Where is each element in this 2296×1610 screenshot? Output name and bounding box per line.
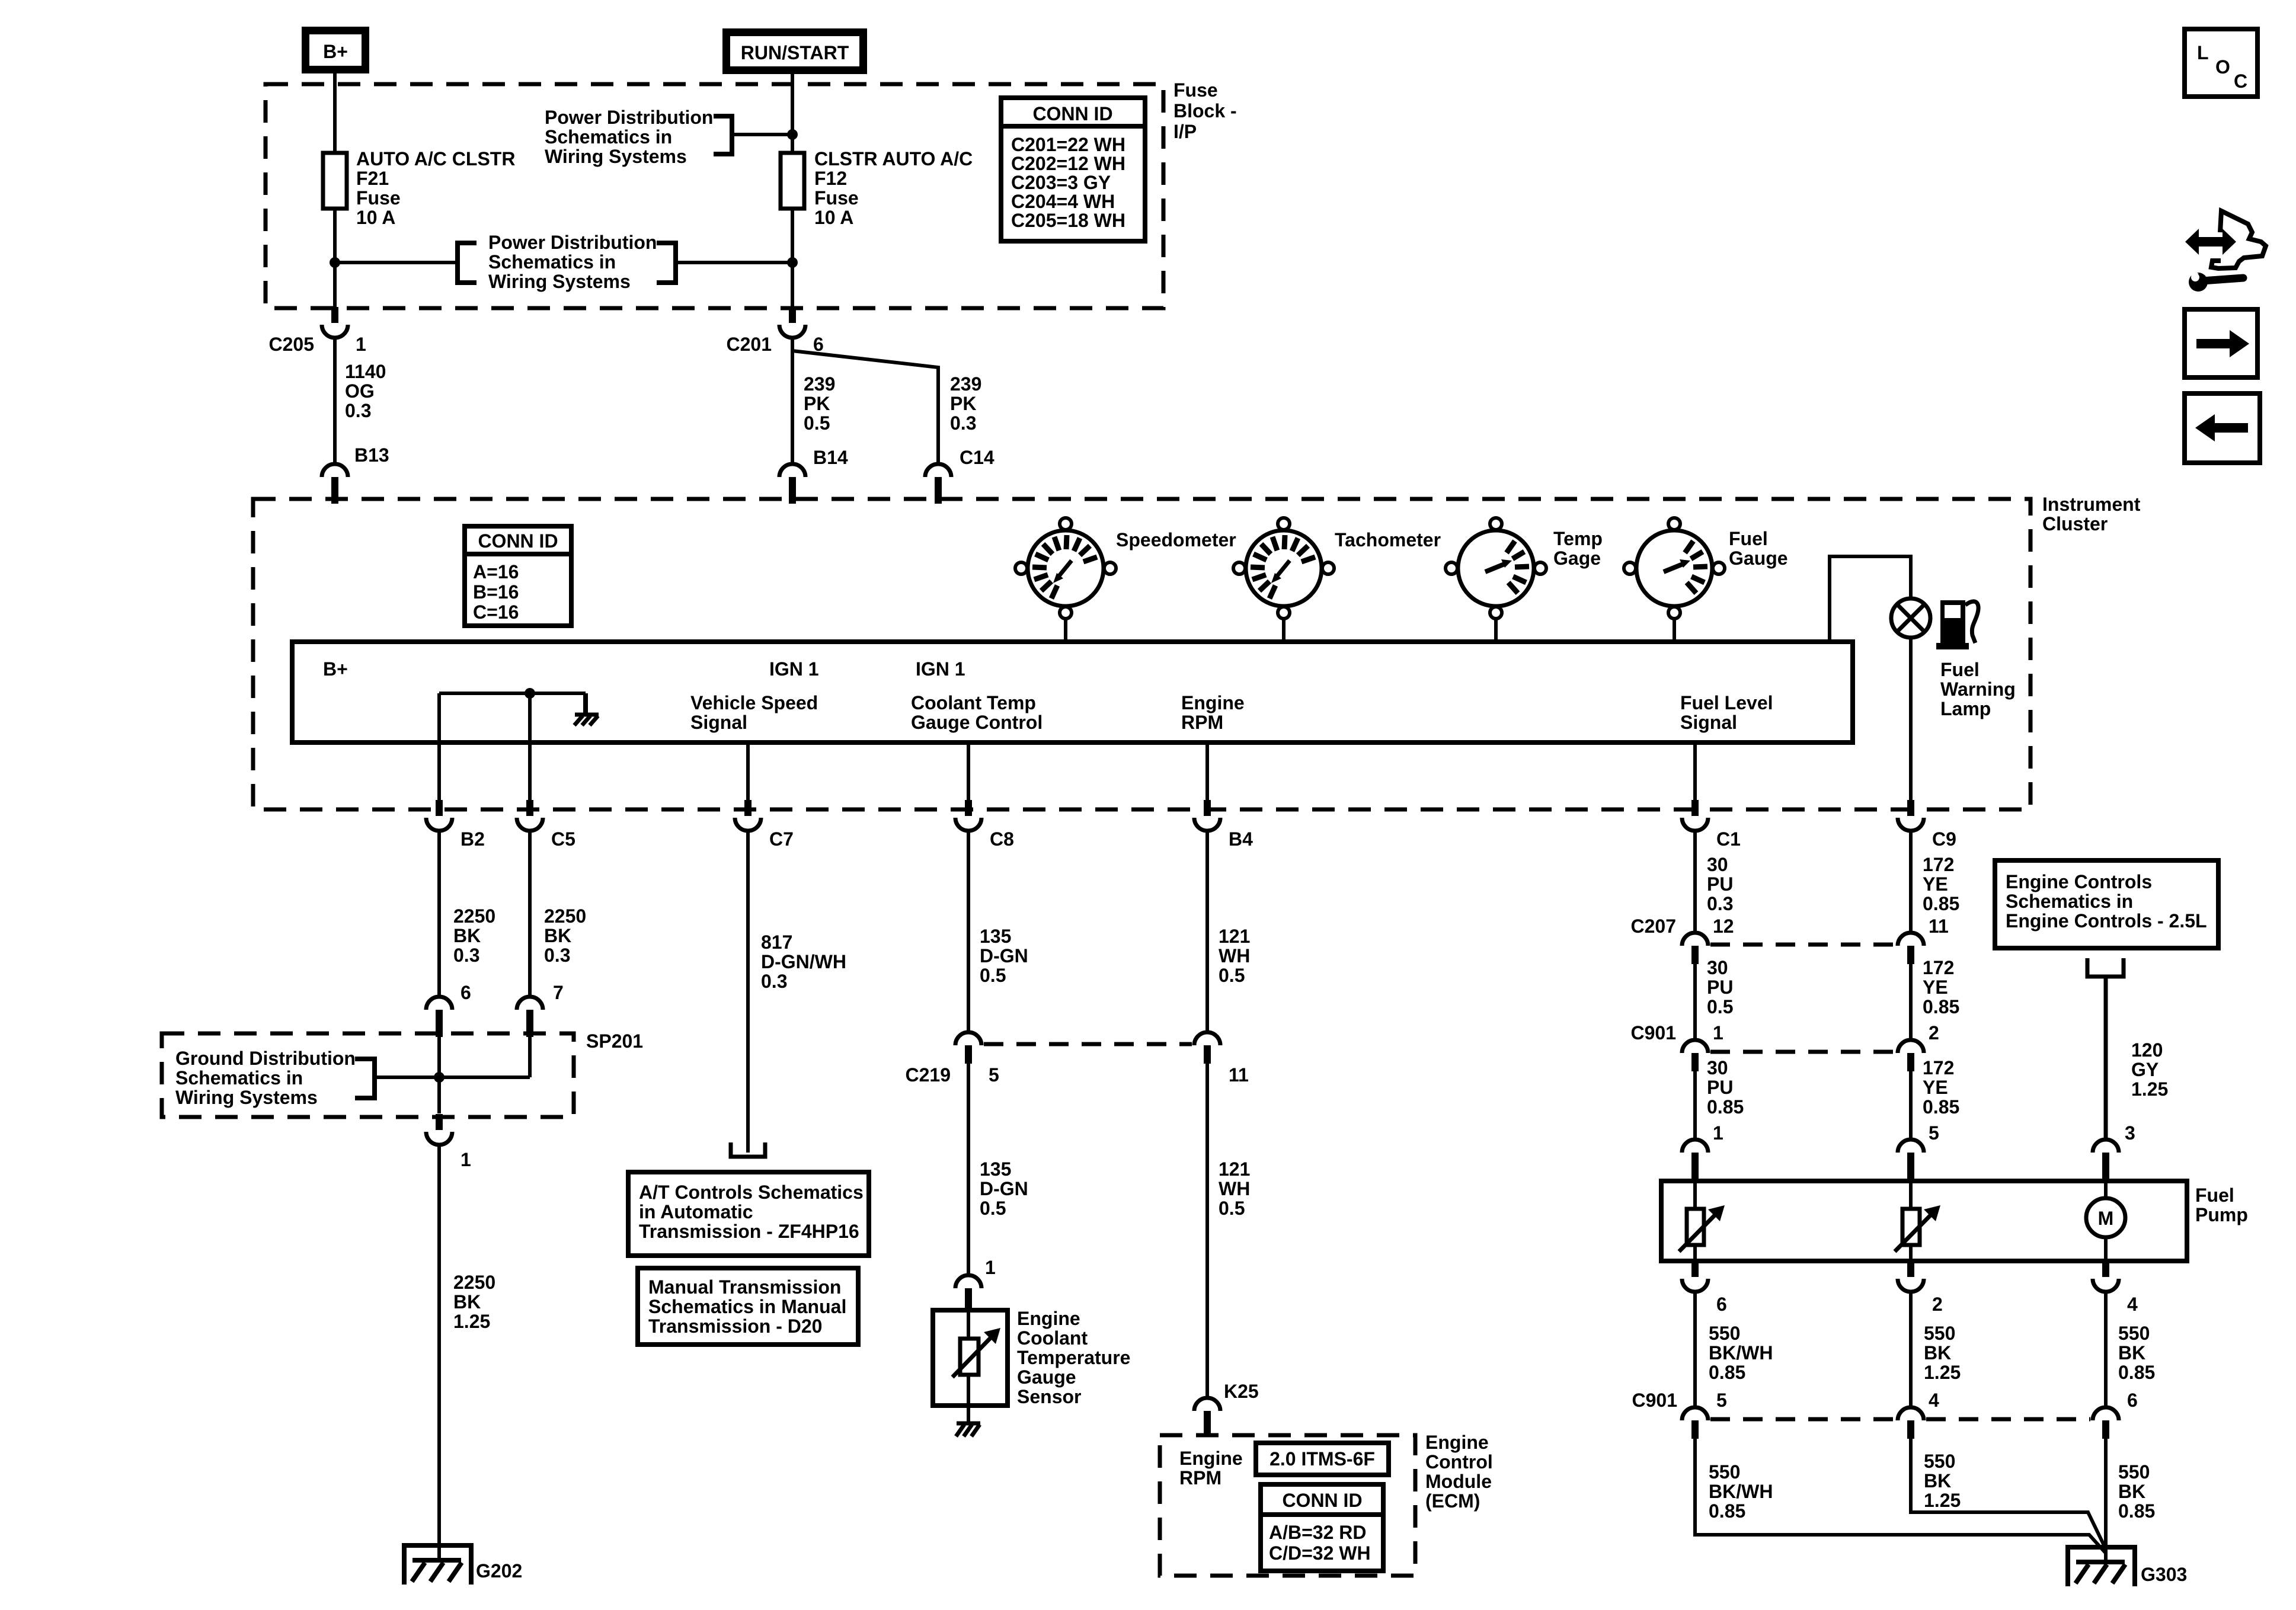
- svg-text:Temperature: Temperature: [1017, 1347, 1130, 1368]
- label Engine Coolant Temperature Gauge Sensor: [1017, 1308, 1130, 1407]
- svg-text:Engine: Engine: [1179, 1448, 1243, 1469]
- power symbol RUN/START: [727, 33, 864, 71]
- connector pin 1 (below SP201): [426, 1114, 452, 1145]
- gauge fuel gauge: [1624, 518, 1725, 619]
- svg-text:Engine: Engine: [1017, 1308, 1080, 1329]
- connector pin 6 (SP201): [426, 997, 452, 1037]
- wire C5 to splice: [528, 1037, 532, 1077]
- value label 30 PU 0.3: [1707, 854, 1733, 914]
- fuse F21: [323, 153, 347, 209]
- svg-text:2: 2: [1932, 1294, 1943, 1315]
- wire temp gage to bus: [1494, 619, 1498, 642]
- svg-text:PK: PK: [804, 393, 830, 414]
- wire 550 BK/WH 0.85 lower: [1695, 1439, 2106, 1553]
- value label 121 WH 0.5 lower: [1219, 1158, 1250, 1219]
- value label 135 D-GN 0.5 lower: [980, 1158, 1028, 1219]
- value label 135 D-GN 0.5 upper: [980, 926, 1028, 986]
- svg-text:B=16: B=16: [473, 581, 519, 603]
- wire 30 PU 0.3: [1693, 831, 1697, 933]
- svg-text:B+: B+: [323, 41, 348, 62]
- connector C207 pin 12: [1682, 933, 1708, 964]
- wire 2250 BK 0.3 (C5): [528, 831, 532, 997]
- svg-text:0.85: 0.85: [1709, 1500, 1745, 1522]
- connector pin B4 (instrument cluster): [1194, 800, 1220, 831]
- svg-text:Gage: Gage: [1553, 548, 1601, 569]
- wire 120 GY 1.25: [2104, 977, 2108, 1140]
- svg-text:PU: PU: [1707, 1077, 1733, 1098]
- label Fuel Warning Lamp: [1940, 659, 2016, 719]
- wire 2250 BK 1.25: [437, 1145, 441, 1560]
- wire 121 WH 0.5 lower: [1205, 1064, 1209, 1398]
- label Fuel Gauge: [1729, 528, 1788, 569]
- table CONN ID (instrument cluster): [465, 526, 571, 626]
- left bracket for reference 2: [458, 243, 477, 283]
- wire B+ to fuse F21: [333, 73, 337, 153]
- svg-text:D-GN/WH: D-GN/WH: [761, 951, 846, 972]
- svg-text:6: 6: [1716, 1294, 1727, 1315]
- connector pin 3 (fuel pump): [2093, 1140, 2119, 1181]
- connector link C901 lower dashed left: [1710, 1417, 1895, 1422]
- svg-text:0.85: 0.85: [2118, 1500, 2155, 1522]
- svg-text:0.85: 0.85: [2118, 1362, 2155, 1383]
- svg-text:1: 1: [1713, 1122, 1723, 1144]
- fuse F12: [781, 153, 804, 209]
- motor fuel pump M: [2086, 1181, 2125, 1261]
- svg-text:PK: PK: [950, 393, 976, 414]
- wire 817 D-GN/WH 0.3: [746, 831, 750, 1153]
- wire 550 BK 1.25 lower: [1911, 1439, 2106, 1549]
- svg-text:B13: B13: [354, 444, 389, 466]
- svg-text:BK: BK: [453, 925, 481, 946]
- wire B2 inside cluster: [437, 693, 441, 801]
- connector pin B14 (instrument cluster): [779, 464, 805, 504]
- svg-text:Gauge Control: Gauge Control: [911, 712, 1043, 733]
- svg-text:0.85: 0.85: [1923, 893, 1959, 914]
- svg-text:0.5: 0.5: [980, 1198, 1006, 1219]
- value label 817 D-GN/WH 0.3: [761, 932, 846, 992]
- svg-text:550: 550: [2118, 1323, 2150, 1344]
- wire B2 through SP201: [437, 1037, 441, 1113]
- svg-text:0.5: 0.5: [980, 965, 1006, 986]
- svg-text:135: 135: [980, 926, 1011, 947]
- wire fuel gauge to bus: [1673, 619, 1676, 642]
- value label 550 BK 0.85 upper: [2118, 1323, 2155, 1383]
- connector pin 4 (below fuel pump): [2093, 1261, 2119, 1292]
- svg-text:RUN/START: RUN/START: [741, 42, 849, 63]
- svg-text:Schematics in: Schematics in: [488, 251, 616, 273]
- wire fuse F12 to connector C201: [791, 209, 794, 308]
- svg-text:10 A: 10 A: [814, 207, 853, 228]
- instrument cluster internal circuit bar: [292, 642, 1853, 742]
- svg-text:Lamp: Lamp: [1940, 698, 1991, 719]
- svg-text:Block -: Block -: [1173, 100, 1237, 121]
- svg-text:Signal: Signal: [1680, 712, 1737, 733]
- svg-text:I/P: I/P: [1173, 121, 1197, 142]
- connector C207 pin 11: [1898, 933, 1924, 964]
- icon schematic navigation (arrows and wrench): [2185, 211, 2266, 292]
- connector link C901 lower dashed right: [1926, 1417, 2090, 1422]
- svg-text:Cluster: Cluster: [2042, 513, 2108, 534]
- wire 172 YE 0.85 lower: [1909, 1071, 1913, 1140]
- svg-text:Control: Control: [1425, 1451, 1493, 1473]
- wire 550 BK/WH 0.85 upper: [1693, 1292, 1697, 1407]
- svg-text:Gauge: Gauge: [1017, 1366, 1076, 1388]
- svg-text:0.5: 0.5: [1219, 1198, 1245, 1219]
- table CONN ID (fuse block): [1001, 98, 1145, 241]
- svg-text:6: 6: [2127, 1390, 2138, 1411]
- svg-text:B+: B+: [323, 658, 348, 680]
- svg-text:0.85: 0.85: [1923, 996, 1959, 1017]
- svg-text:WH: WH: [1219, 1178, 1250, 1199]
- wire 121 WH 0.5 upper: [1205, 831, 1209, 1032]
- svg-text:BK: BK: [453, 1291, 481, 1313]
- bracket C7 destination: [731, 1142, 765, 1157]
- svg-text:Instrument: Instrument: [2042, 494, 2141, 515]
- svg-text:Engine: Engine: [1181, 692, 1245, 713]
- svg-text:Schematics in Manual: Schematics in Manual: [648, 1296, 846, 1317]
- svg-text:F12: F12: [814, 168, 847, 189]
- connector pin C14 (instrument cluster): [925, 464, 951, 504]
- svg-text:Fuel: Fuel: [2195, 1185, 2234, 1206]
- ground internal chassis: [574, 715, 599, 725]
- wire 239 PK 0.5: [791, 338, 794, 464]
- svg-text:WH: WH: [1219, 945, 1250, 966]
- svg-text:PU: PU: [1707, 873, 1733, 895]
- value label 172 YE 0.85 middle: [1923, 957, 1959, 1017]
- svg-text:12: 12: [1713, 916, 1734, 937]
- icon LOC reference box: [2185, 29, 2257, 97]
- svg-text:0.85: 0.85: [1709, 1362, 1745, 1383]
- value label 239 PK 0.3: [950, 373, 981, 434]
- svg-text:CLSTR AUTO A/C: CLSTR AUTO A/C: [814, 148, 973, 169]
- svg-text:1.25: 1.25: [453, 1311, 490, 1332]
- svg-text:CONN ID: CONN ID: [1032, 103, 1112, 124]
- svg-text:Module: Module: [1425, 1471, 1492, 1492]
- wire reference 2 to F21 wire: [335, 261, 458, 264]
- value label 1140 OG 0.3: [345, 361, 386, 421]
- instrument cluster dashed box: [253, 499, 2030, 809]
- svg-text:Fuse: Fuse: [1173, 79, 1218, 101]
- svg-text:C1: C1: [1716, 828, 1741, 850]
- svg-text:B4: B4: [1229, 828, 1253, 850]
- svg-text:G202: G202: [476, 1560, 522, 1582]
- svg-text:172: 172: [1923, 854, 1954, 875]
- wire B4 inside cluster: [1205, 742, 1209, 801]
- svg-text:1: 1: [461, 1149, 471, 1170]
- svg-text:BK/WH: BK/WH: [1709, 1342, 1773, 1363]
- svg-text:172: 172: [1923, 957, 1954, 978]
- connector pin B13 (instrument cluster): [322, 464, 348, 504]
- svg-text:Vehicle Speed: Vehicle Speed: [690, 692, 818, 713]
- svg-text:Transmission - D20: Transmission - D20: [648, 1315, 822, 1337]
- svg-text:0.3: 0.3: [544, 945, 570, 966]
- svg-text:817: 817: [761, 932, 792, 953]
- gauge tachometer: [1233, 518, 1334, 619]
- svg-text:120: 120: [2131, 1039, 2163, 1061]
- svg-text:2: 2: [1929, 1022, 1939, 1044]
- svg-text:C219: C219: [906, 1064, 951, 1086]
- resistor fuel level sender 2: [1895, 1181, 1940, 1261]
- value label 550 BK 0.85 lower: [2118, 1461, 2155, 1522]
- svg-text:C207: C207: [1631, 916, 1677, 937]
- wire 550 BK 1.25 upper: [1909, 1292, 1913, 1407]
- svg-text:C14: C14: [960, 447, 994, 468]
- ECM dashed box: [1160, 1435, 1415, 1576]
- svg-text:0.3: 0.3: [1707, 893, 1733, 914]
- node junction on F12 wire: [787, 257, 798, 268]
- value label 120 GY 1.25: [2131, 1039, 2168, 1100]
- connector C901 pin 5: [1682, 1407, 1708, 1439]
- svg-text:Schematics in: Schematics in: [545, 126, 672, 148]
- connector pin C1 (instrument cluster): [1682, 800, 1708, 831]
- svg-text:C201: C201: [727, 334, 772, 355]
- sensor engine coolant temperature gauge sensor: [933, 1310, 1008, 1406]
- svg-text:Engine Controls: Engine Controls: [2006, 871, 2152, 892]
- svg-text:Ground Distribution: Ground Distribution: [175, 1048, 356, 1069]
- reference box A/T Controls: [628, 1172, 869, 1256]
- wire 135 D-GN 0.5 upper: [967, 831, 970, 1032]
- svg-text:C205: C205: [269, 334, 315, 355]
- svg-text:4: 4: [1929, 1390, 1939, 1411]
- svg-text:CONN ID: CONN ID: [478, 530, 558, 552]
- svg-text:C204=4 WH: C204=4 WH: [1011, 191, 1115, 212]
- svg-text:D-GN: D-GN: [980, 1178, 1028, 1199]
- value label 172 YE 0.85 upper: [1923, 854, 1959, 914]
- svg-text:Power Distribution: Power Distribution: [488, 232, 657, 253]
- svg-text:Engine: Engine: [1425, 1432, 1489, 1453]
- svg-text:10 A: 10 A: [356, 207, 395, 228]
- svg-text:30: 30: [1707, 957, 1728, 978]
- svg-text:C901: C901: [1632, 1390, 1678, 1411]
- svg-text:0.3: 0.3: [950, 412, 976, 434]
- reference box 2.0 ITMS-6F: [1256, 1443, 1389, 1475]
- wire 550 BK 0.85 lower: [2104, 1439, 2108, 1562]
- svg-text:Temp: Temp: [1553, 528, 1603, 549]
- wire branch 239 PK 0.3: [792, 351, 938, 464]
- lamp fuel warning: [1891, 598, 1930, 638]
- svg-text:0.3: 0.3: [453, 945, 479, 966]
- svg-text:550: 550: [1709, 1323, 1740, 1344]
- svg-text:Fuel: Fuel: [1940, 659, 1980, 680]
- reference note Ground Distribution: [175, 1048, 356, 1108]
- svg-text:0.85: 0.85: [1923, 1096, 1959, 1118]
- svg-text:RPM: RPM: [1181, 712, 1223, 733]
- svg-text:A=16: A=16: [473, 561, 519, 582]
- right bracket for reference 2: [657, 243, 676, 283]
- wire 30 PU 0.85: [1693, 1071, 1697, 1140]
- svg-text:5: 5: [989, 1064, 999, 1086]
- svg-text:in Automatic: in Automatic: [639, 1201, 753, 1222]
- svg-text:1.25: 1.25: [1924, 1362, 1961, 1383]
- node junction on F21 wire: [330, 257, 340, 268]
- svg-text:C5: C5: [551, 828, 575, 850]
- svg-text:30: 30: [1707, 854, 1728, 875]
- fuel pump box: [1661, 1181, 2187, 1261]
- wire 172 YE 0.85 upper: [1909, 831, 1913, 933]
- svg-text:BK/WH: BK/WH: [1709, 1481, 1773, 1502]
- svg-text:0.3: 0.3: [761, 971, 787, 992]
- svg-text:C8: C8: [990, 828, 1014, 850]
- value label 2250 BK 0.3 (C5): [544, 905, 586, 966]
- wire 2250 BK 0.3 (B2): [437, 831, 441, 997]
- svg-text:Engine Controls - 2.5L: Engine Controls - 2.5L: [2006, 910, 2207, 932]
- wire C5 inside cluster: [528, 693, 532, 801]
- svg-text:YE: YE: [1923, 873, 1948, 895]
- svg-text:BK: BK: [1924, 1470, 1951, 1491]
- wire reference 1 to RUN/START wire: [732, 133, 792, 136]
- svg-text:1: 1: [1713, 1022, 1723, 1044]
- svg-text:Wiring Systems: Wiring Systems: [488, 271, 631, 292]
- value label 550 BK 1.25 lower: [1924, 1451, 1961, 1511]
- svg-text:550: 550: [1924, 1451, 1955, 1472]
- svg-text:Fuel Level: Fuel Level: [1680, 692, 1773, 713]
- svg-text:Manual Transmission: Manual Transmission: [648, 1276, 841, 1298]
- svg-text:BK: BK: [1924, 1342, 1951, 1363]
- ground G303: [2068, 1547, 2135, 1586]
- connector pin K25 (ECM): [1194, 1398, 1220, 1435]
- svg-text:1.25: 1.25: [1924, 1490, 1961, 1511]
- connector C219 pin 5: [955, 1032, 981, 1064]
- wire reference 2 to F12 wire: [676, 261, 792, 264]
- svg-text:550: 550: [1924, 1323, 1955, 1344]
- net label Engine RPM: [1181, 692, 1245, 733]
- connector link C901 dashed: [1710, 1050, 1895, 1054]
- svg-text:GY: GY: [2131, 1059, 2159, 1080]
- label Fuse Block - I/P: [1173, 79, 1237, 142]
- value label 30 PU 0.85: [1707, 1057, 1744, 1118]
- svg-text:Wiring Systems: Wiring Systems: [545, 146, 687, 167]
- net label Vehicle Speed Signal: [690, 692, 818, 733]
- connector pin C9 (instrument cluster): [1898, 800, 1924, 831]
- label Fuel Pump: [2195, 1185, 2248, 1225]
- svg-text:6: 6: [461, 982, 471, 1003]
- svg-text:Tachometer: Tachometer: [1335, 529, 1441, 550]
- wire to fuel warning lamp: [1830, 556, 1911, 642]
- node junction SP201: [434, 1072, 445, 1083]
- icon previous page arrow: [2185, 393, 2260, 463]
- svg-text:172: 172: [1923, 1057, 1954, 1078]
- icon next page arrow: [2185, 309, 2257, 377]
- reference box Engine Controls: [1995, 860, 2218, 948]
- svg-text:K25: K25: [1224, 1381, 1259, 1402]
- svg-text:Fuse: Fuse: [356, 187, 401, 209]
- svg-text:2250: 2250: [453, 905, 495, 927]
- value label 239 PK 0.5: [804, 373, 835, 434]
- svg-text:B14: B14: [813, 447, 848, 468]
- svg-text:(ECM): (ECM): [1425, 1490, 1480, 1512]
- svg-text:BK: BK: [2118, 1481, 2145, 1502]
- connector pin C8 (instrument cluster): [955, 800, 981, 831]
- svg-text:3: 3: [2125, 1122, 2135, 1144]
- connector C901 pin 6: [2093, 1407, 2119, 1439]
- power symbol B+: [306, 31, 366, 70]
- svg-text:SP201: SP201: [586, 1030, 643, 1052]
- value label 550 BK/WH 0.85 upper: [1709, 1323, 1773, 1383]
- reference box Manual Transmission: [638, 1268, 858, 1345]
- svg-text:C7: C7: [769, 828, 794, 850]
- resistor fuel level sender 1: [1679, 1181, 1725, 1261]
- svg-text:Gauge: Gauge: [1729, 548, 1788, 569]
- value label 121 WH 0.5 upper: [1219, 926, 1250, 986]
- svg-text:2250: 2250: [453, 1272, 495, 1293]
- svg-text:B2: B2: [461, 828, 485, 850]
- connector pin 6 (below fuel pump): [1682, 1261, 1708, 1292]
- svg-text:C202=12 WH: C202=12 WH: [1011, 153, 1125, 174]
- svg-text:121: 121: [1219, 1158, 1250, 1180]
- connector pin 7 (SP201): [517, 997, 543, 1037]
- svg-text:L: L: [2197, 42, 2209, 63]
- value label 550 BK/WH 0.85 lower: [1709, 1461, 1773, 1522]
- wire splice link SP201: [375, 1076, 530, 1079]
- gauge temp gage: [1446, 518, 1546, 619]
- svg-text:C/D=32 WH: C/D=32 WH: [1269, 1542, 1371, 1564]
- svg-text:CONN ID: CONN ID: [1282, 1490, 1362, 1511]
- connector link C219 dashed: [984, 1042, 1192, 1046]
- connector C901 pin 2: [1898, 1040, 1924, 1071]
- svg-text:0.5: 0.5: [1219, 965, 1245, 986]
- reference note Power Distribution 2: [488, 232, 657, 292]
- svg-text:C: C: [2234, 71, 2247, 92]
- svg-text:550: 550: [1709, 1461, 1740, 1483]
- ground G202: [404, 1545, 471, 1585]
- svg-text:Coolant: Coolant: [1017, 1327, 1088, 1349]
- svg-text:1: 1: [985, 1257, 996, 1278]
- svg-text:F21: F21: [356, 168, 389, 189]
- svg-text:2.0 ITMS-6F: 2.0 ITMS-6F: [1269, 1448, 1375, 1470]
- svg-text:Schematics in: Schematics in: [175, 1067, 303, 1089]
- svg-text:7: 7: [553, 982, 564, 1003]
- svg-text:A/B=32 RD: A/B=32 RD: [1269, 1522, 1367, 1543]
- label Instrument Cluster: [2042, 494, 2141, 534]
- value label 172 YE 0.85 lower: [1923, 1057, 1959, 1118]
- connector pin 1 (fuel pump): [1682, 1140, 1708, 1181]
- connector pin 1 (coolant sensor): [955, 1275, 981, 1310]
- connector C901 pin 4: [1898, 1407, 1924, 1439]
- svg-text:O: O: [2215, 56, 2230, 78]
- svg-text:0.3: 0.3: [345, 400, 371, 421]
- ground coolant sensor chassis: [956, 1423, 980, 1436]
- label Engine Control Module (ECM): [1425, 1432, 1493, 1512]
- svg-text:G303: G303: [2141, 1564, 2187, 1585]
- svg-text:11: 11: [1929, 916, 1949, 937]
- svg-text:AUTO A/C CLSTR: AUTO A/C CLSTR: [356, 148, 515, 169]
- wire C7 inside cluster: [746, 742, 750, 801]
- svg-text:C9: C9: [1932, 828, 1956, 850]
- svg-text:0.85: 0.85: [1707, 1096, 1744, 1118]
- svg-text:550: 550: [2118, 1461, 2150, 1483]
- svg-text:Speedometer: Speedometer: [1116, 529, 1236, 550]
- svg-text:0.5: 0.5: [804, 412, 830, 434]
- svg-text:A/T Controls Schematics: A/T Controls Schematics: [639, 1182, 864, 1203]
- svg-text:IGN 1: IGN 1: [769, 658, 819, 680]
- svg-text:Signal: Signal: [690, 712, 747, 733]
- wire RUN/START to fuse F12: [791, 74, 794, 153]
- svg-text:2250: 2250: [544, 905, 586, 927]
- svg-text:C205=18 WH: C205=18 WH: [1011, 210, 1125, 231]
- wire speedometer to bus: [1064, 619, 1067, 642]
- svg-text:4: 4: [2127, 1294, 2138, 1315]
- svg-text:5: 5: [1929, 1122, 1939, 1144]
- table CONN ID (ECM): [1261, 1484, 1383, 1571]
- wire sensor to ground: [967, 1406, 970, 1423]
- splice SP201 dashed box: [162, 1033, 574, 1117]
- svg-text:Transmission - ZF4HP16: Transmission - ZF4HP16: [639, 1221, 859, 1242]
- wire internal ground link: [439, 692, 586, 695]
- svg-text:11: 11: [1229, 1064, 1249, 1086]
- connector pin 11 (C219 row): [1194, 1032, 1220, 1064]
- node junction C5 ground link: [525, 688, 535, 699]
- svg-text:PU: PU: [1707, 977, 1733, 998]
